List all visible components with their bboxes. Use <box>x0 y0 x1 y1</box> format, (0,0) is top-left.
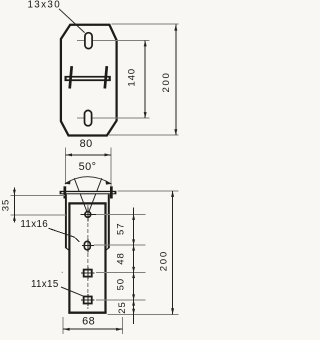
svg-text:25: 25 <box>117 301 128 313</box>
svg-text:35: 35 <box>1 199 12 211</box>
svg-text:57: 57 <box>115 223 126 235</box>
svg-text:200: 200 <box>161 71 172 92</box>
svg-text:13x30: 13x30 <box>27 0 61 11</box>
svg-text:68: 68 <box>82 316 95 328</box>
svg-text:48: 48 <box>115 252 126 264</box>
svg-text:140: 140 <box>127 68 138 87</box>
svg-text:50: 50 <box>115 278 126 290</box>
svg-text:11x16: 11x16 <box>20 219 48 230</box>
svg-text:80: 80 <box>80 138 93 150</box>
svg-text:11x15: 11x15 <box>31 279 59 290</box>
svg-text:50°: 50° <box>79 161 97 173</box>
svg-text:200: 200 <box>158 250 169 271</box>
